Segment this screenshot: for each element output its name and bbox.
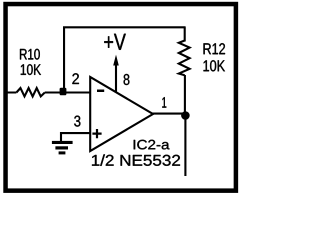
label 10K (R10 value) xyxy=(21,64,41,75)
wire top rail to R12 xyxy=(184,27,186,41)
pin 8 label xyxy=(124,74,130,85)
wire output drop xyxy=(184,115,186,176)
wire noninverting input (pin 3) xyxy=(61,133,90,141)
resistor R10 xyxy=(16,88,44,96)
label IC2-a xyxy=(134,140,170,150)
label 1/2 NE5532 xyxy=(92,154,180,165)
pin 1 label xyxy=(162,97,166,107)
resistor R12 xyxy=(179,41,190,76)
pin 2 label xyxy=(72,73,79,84)
label +V xyxy=(104,34,126,50)
label 10K (R12 value) xyxy=(204,60,226,71)
op-amp plus symbol xyxy=(92,129,101,138)
label R12 xyxy=(204,43,226,54)
wire top rail xyxy=(63,26,186,28)
pin 3 label xyxy=(74,116,80,127)
op-amp minus symbol xyxy=(97,90,104,93)
wire R12 to output node xyxy=(184,75,186,115)
wire input from left border to R10 xyxy=(7,92,16,94)
wire R10 to inverting input xyxy=(45,92,90,94)
op-amp IC2-a triangle xyxy=(90,77,153,151)
wire output (pin 1) xyxy=(152,113,186,115)
label R10 xyxy=(20,49,40,60)
wire feedback vertical xyxy=(63,27,65,91)
node pin2 junction dot xyxy=(60,88,67,96)
power +V arrow (pin 8 lead) xyxy=(115,63,117,92)
ground xyxy=(52,141,73,144)
node output junction dot xyxy=(181,111,190,120)
